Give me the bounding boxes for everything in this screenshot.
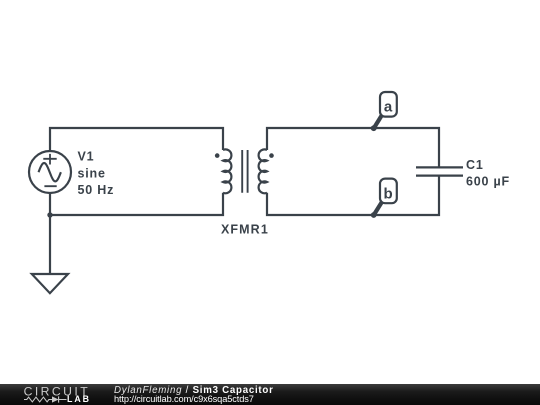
svg-text:V1: V1 — [78, 150, 95, 164]
svg-text:a: a — [384, 98, 393, 115]
svg-text:b: b — [384, 186, 393, 203]
svg-text:600 µF: 600 µF — [466, 174, 510, 188]
svg-text:XFMR1: XFMR1 — [221, 222, 269, 236]
svg-text:50 Hz: 50 Hz — [78, 183, 115, 197]
svg-text:C1: C1 — [466, 158, 484, 172]
svg-text:sine: sine — [78, 166, 106, 180]
svg-text:LAB: LAB — [67, 394, 91, 404]
